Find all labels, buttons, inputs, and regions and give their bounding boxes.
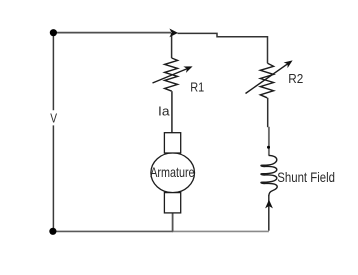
svg-text:Armature: Armature — [150, 164, 194, 180]
svg-text:Ia: Ia — [158, 103, 170, 118]
svg-text:V: V — [50, 111, 57, 126]
svg-text:R2: R2 — [288, 71, 303, 86]
svg-text:Shunt Field: Shunt Field — [277, 169, 335, 185]
svg-text:R1: R1 — [190, 80, 204, 95]
